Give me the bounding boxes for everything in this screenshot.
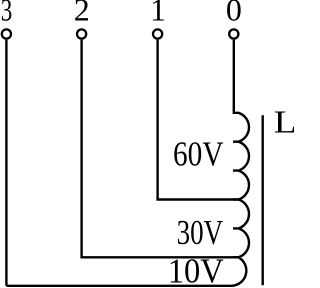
- svg-text:60V: 60V: [173, 135, 224, 173]
- svg-text:10V: 10V: [168, 253, 224, 288]
- svg-text:30V: 30V: [177, 214, 224, 252]
- svg-text:L: L: [274, 105, 294, 140]
- svg-text:0: 0: [226, 0, 242, 28]
- svg-text:2: 2: [74, 0, 90, 28]
- svg-text:1: 1: [150, 0, 166, 28]
- svg-text:3: 3: [1, 0, 13, 28]
